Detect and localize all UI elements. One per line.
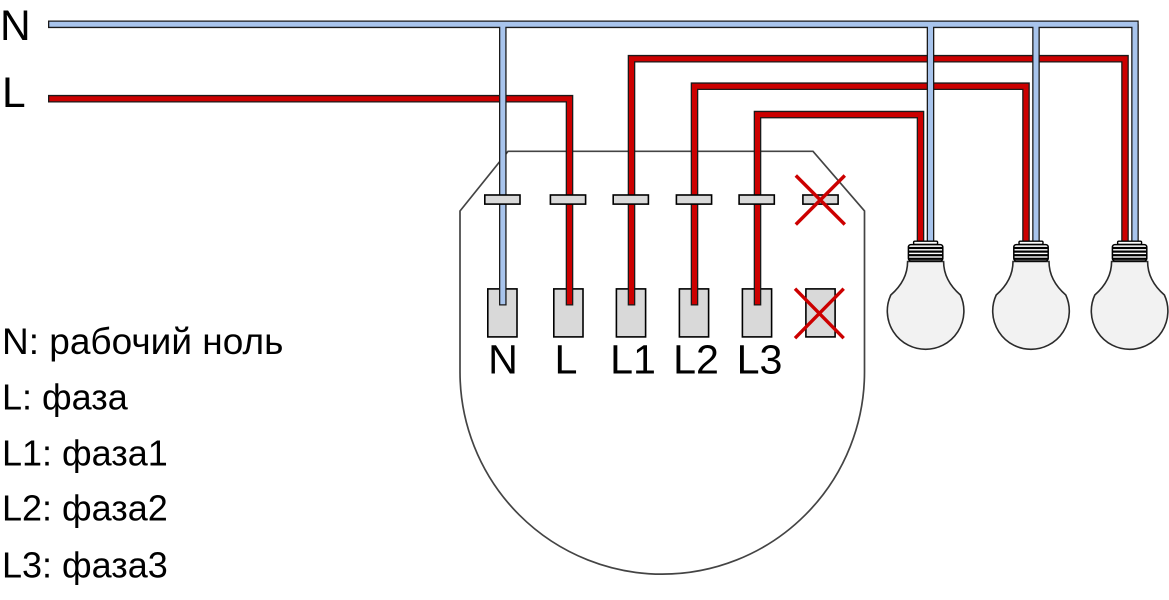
svg-text:L3: фаза3: L3: фаза3 <box>2 544 168 585</box>
terminal L <box>554 289 583 337</box>
contact bar N <box>485 195 520 204</box>
svg-text:L1: фаза1: L1: фаза1 <box>2 432 168 473</box>
wire L2 outline: terminal L2 to bulb 2 <box>695 86 1027 305</box>
wire L outline: from L label to terminal L <box>48 99 570 306</box>
wire L1 outline: terminal L1 to bulb 3 <box>632 59 1126 306</box>
svg-text:L1: L1 <box>610 336 656 382</box>
contact bar L2 <box>676 195 711 204</box>
svg-text:L: L <box>2 70 26 117</box>
wire L red fill <box>49 99 569 305</box>
bulb 1 screw threads <box>908 245 942 261</box>
wire L3 outline: terminal L3 to bulb 1 <box>758 115 921 306</box>
contact bar L3 <box>739 195 774 204</box>
unused contact bar (crossed out) <box>803 195 838 204</box>
red X over unused terminal <box>795 289 844 339</box>
svg-text:L2: фаза2: L2: фаза2 <box>2 488 168 529</box>
relay module body outline <box>460 151 865 574</box>
svg-text:N: N <box>488 336 518 382</box>
bulb 3 glass <box>1091 262 1168 350</box>
svg-text:L: L <box>555 336 578 382</box>
wire L2 red fill <box>695 86 1027 304</box>
terminal L1 <box>616 289 645 337</box>
bulb 1 cap plate <box>914 241 938 244</box>
bulb 3 screw threads <box>1112 245 1146 261</box>
contact bar L1 <box>613 195 648 204</box>
wire N blue fill <box>49 22 1137 304</box>
svg-text:N: N <box>0 3 31 50</box>
bulb 2 cap plate <box>1019 241 1043 244</box>
terminal L3 <box>742 289 771 337</box>
bulb 2 screw threads <box>1014 245 1048 261</box>
svg-text:L2: L2 <box>673 336 719 382</box>
unused terminal (crossed out) <box>806 289 835 337</box>
terminal L2 <box>679 289 708 337</box>
contact bar L <box>550 195 585 204</box>
svg-text:N: рабочий ноль: N: рабочий ноль <box>2 321 283 362</box>
svg-text:L: фаза: L: фаза <box>2 377 129 418</box>
bulb 3 cap plate <box>1118 241 1142 244</box>
bulb 2 glass <box>993 262 1070 350</box>
svg-text:L3: L3 <box>737 336 783 382</box>
terminal N <box>488 289 517 337</box>
wire L1 red fill <box>632 59 1126 305</box>
wire L3 red fill <box>758 115 921 305</box>
wire N (neutral bus) outline <box>48 24 1139 305</box>
red X over unused contact bar <box>796 176 845 225</box>
bulb 1 glass <box>887 262 964 350</box>
